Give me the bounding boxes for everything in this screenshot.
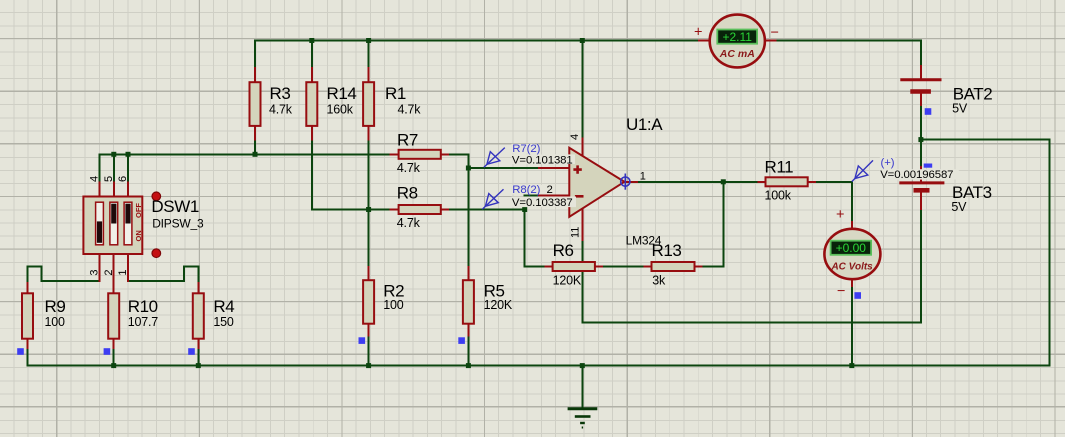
wire DSW row bbox=[100, 153, 391, 155]
pin leads R8 bbox=[390, 209, 448, 211]
probe R7(2) arrow bbox=[484, 148, 505, 168]
pin leads R10 bbox=[113, 254, 115, 348]
op-amp output node symbol bbox=[621, 177, 630, 186]
DSW1 slot 1 bbox=[96, 202, 104, 245]
svg-text:R3: R3 bbox=[270, 84, 291, 103]
pin lead op-amp pin 4 bbox=[581, 138, 583, 157]
pin lead op-amp plus input bbox=[539, 167, 569, 169]
text background R8(2) bbox=[512, 185, 555, 195]
wire R9 bottom bbox=[27, 348, 29, 366]
node rail R2 bbox=[366, 363, 371, 368]
svg-text:5V: 5V bbox=[952, 102, 968, 116]
node DSW row pin6 bbox=[126, 152, 131, 157]
wire R1 top drop bbox=[368, 41, 370, 69]
wire R3 bottom bbox=[254, 140, 256, 155]
svg-text:DSW1: DSW1 bbox=[151, 197, 199, 216]
resistor R4 bbox=[193, 293, 204, 338]
resistor R5 bbox=[463, 280, 474, 324]
probe R8(2) arrow bbox=[482, 189, 503, 209]
svg-text:LM324: LM324 bbox=[626, 234, 662, 248]
svg-text:4.7k: 4.7k bbox=[269, 103, 293, 117]
svg-text:+0.00: +0.00 bbox=[836, 241, 867, 255]
wire DSW pin6 stub bbox=[127, 154, 129, 182]
node output R13 junction bbox=[721, 179, 726, 184]
svg-text:R8(2): R8(2) bbox=[512, 184, 540, 196]
battery BAT3 bbox=[899, 181, 944, 184]
svg-text:R7(2): R7(2) bbox=[512, 143, 540, 155]
svg-text:−: − bbox=[771, 25, 779, 41]
pin leads DSW1 top pins 4 5 6 bbox=[100, 183, 129, 197]
svg-text:V=0.00196587: V=0.00196587 bbox=[880, 169, 953, 181]
node top rail pin4 bbox=[580, 38, 585, 43]
wire R2 bottom bbox=[368, 336, 370, 366]
unconnected marker BAT3 bbox=[924, 164, 933, 168]
resistor R9 bbox=[22, 293, 33, 338]
node R8 row R1 bbox=[366, 207, 371, 212]
text background R7(2) bbox=[512, 144, 536, 154]
op-amp plus mark bbox=[573, 165, 581, 173]
op-amp minus mark bbox=[575, 195, 584, 198]
unconnected marker R2 bbox=[359, 337, 366, 344]
svg-text:V=0.101381: V=0.101381 bbox=[512, 154, 573, 166]
wire BAT2 top drop bbox=[920, 41, 922, 67]
svg-text:107.7: 107.7 bbox=[128, 315, 159, 329]
svg-text:R1: R1 bbox=[385, 84, 406, 103]
svg-text:1: 1 bbox=[117, 269, 129, 275]
wire R5 bottom bbox=[467, 336, 469, 366]
svg-text:R11: R11 bbox=[765, 158, 794, 177]
node rail R10 bbox=[111, 363, 116, 368]
svg-text:4.7k: 4.7k bbox=[397, 216, 421, 230]
svg-text:5: 5 bbox=[103, 176, 115, 182]
svg-text:+: + bbox=[694, 25, 702, 41]
ammeter display bbox=[717, 30, 757, 44]
svg-text:R14: R14 bbox=[327, 84, 357, 103]
resistor R13 bbox=[652, 262, 695, 271]
svg-text:100: 100 bbox=[383, 298, 404, 312]
wire R11 right to volts meter bbox=[815, 182, 852, 222]
pin leads R14 bbox=[311, 68, 313, 140]
DSW1 slot 2 bbox=[110, 202, 118, 245]
svg-text:OFF: OFF bbox=[134, 203, 143, 218]
ground bbox=[568, 407, 598, 410]
pin leads BAT2 bbox=[920, 66, 922, 105]
wire R9 staircase to DSW pin3 bbox=[28, 267, 100, 284]
svg-text:5V: 5V bbox=[951, 200, 967, 214]
node rail R4 bbox=[196, 363, 201, 368]
pin leads R11 bbox=[758, 181, 814, 183]
svg-text:ON: ON bbox=[134, 230, 143, 241]
resistor R2 bbox=[363, 280, 374, 324]
svg-text:R6: R6 bbox=[553, 241, 574, 260]
wire R7 right to node bbox=[448, 154, 468, 168]
svg-text:U1:A: U1:A bbox=[626, 115, 663, 134]
svg-text:R10: R10 bbox=[128, 297, 158, 316]
resistor R6 bbox=[553, 262, 595, 271]
DSW1 slot 3 bbox=[124, 202, 132, 245]
svg-text:R9: R9 bbox=[45, 297, 66, 316]
resistor R3 bbox=[250, 82, 261, 126]
wire top rail right bbox=[776, 40, 921, 42]
probe (+) arrow bbox=[852, 160, 873, 181]
wire BAT junction to right edge bbox=[921, 140, 1050, 366]
node rail volts meter bbox=[849, 363, 854, 368]
wire R4 staircase to DSW pin1 bbox=[128, 267, 198, 284]
unconnected marker voltmeter bbox=[854, 292, 861, 299]
svg-text:R8: R8 bbox=[397, 184, 418, 203]
svg-text:+: + bbox=[836, 207, 844, 223]
wire DSW pin4 stub bbox=[99, 154, 101, 182]
svg-text:2: 2 bbox=[547, 184, 553, 196]
svg-text:3: 3 bbox=[89, 269, 101, 275]
svg-text:100k: 100k bbox=[765, 189, 792, 203]
svg-text:DIPSW_3: DIPSW_3 bbox=[152, 217, 204, 231]
svg-text:2: 2 bbox=[103, 269, 115, 275]
pin leads R3 bbox=[254, 68, 256, 140]
wire R14 top drop bbox=[311, 41, 313, 69]
resistor R7 bbox=[399, 150, 441, 159]
svg-text:4.7k: 4.7k bbox=[398, 103, 422, 117]
resistor R8 bbox=[399, 205, 441, 214]
svg-text:160k: 160k bbox=[327, 103, 354, 117]
unconnected marker R4 bbox=[188, 348, 195, 355]
node minus-input junction bbox=[522, 207, 527, 212]
wire R8 right to node bbox=[448, 209, 525, 211]
unconnected marker R5 bbox=[458, 337, 465, 344]
node rail R5 bbox=[466, 363, 471, 368]
resistor R1 bbox=[363, 82, 374, 126]
node DSW row R3 bbox=[253, 152, 258, 157]
node A plus-input junction bbox=[466, 166, 471, 171]
svg-text:4.7k: 4.7k bbox=[397, 161, 421, 175]
wire R4 bottom bbox=[197, 348, 199, 366]
wire op-amp output to R11 bbox=[637, 181, 758, 183]
node DSW row pin5 bbox=[111, 152, 116, 157]
wire R1 bottom to R2 bbox=[368, 140, 370, 268]
pin leads R6 bbox=[545, 266, 602, 268]
pin leads R13 bbox=[644, 266, 701, 268]
resistor R11 bbox=[766, 177, 808, 186]
svg-text:+2.11: +2.11 bbox=[722, 30, 752, 44]
pin leads R1 bbox=[368, 68, 370, 140]
wire node to op-amp plus input bbox=[468, 167, 539, 169]
pin leads DSW1 bottom pins 3 2 1 bbox=[100, 254, 129, 281]
svg-text:−: − bbox=[837, 284, 845, 300]
wire BAT2 bottom to BAT3 top bbox=[920, 105, 922, 167]
pin leads R9 bbox=[27, 283, 29, 348]
node BAT2 BAT3 junction bbox=[918, 137, 923, 142]
svg-text:AC Volts: AC Volts bbox=[830, 261, 873, 272]
node top rail R1 bbox=[366, 38, 371, 43]
wire ground stem bbox=[581, 366, 583, 408]
pin lead op-amp minus input bbox=[539, 194, 569, 196]
resistor R10 bbox=[108, 293, 119, 338]
unconnected marker R10 bbox=[104, 348, 111, 355]
wire R6 to R13 bbox=[602, 266, 644, 268]
svg-text:R4: R4 bbox=[213, 297, 234, 316]
text background (+) probe bbox=[880, 157, 896, 167]
wire R10 bottom bbox=[113, 348, 115, 366]
wire top rail left bbox=[255, 40, 699, 42]
pin leads R5 bbox=[467, 267, 469, 336]
svg-text:4: 4 bbox=[569, 134, 581, 140]
pin leads AC Volts meter bbox=[851, 222, 853, 286]
pin leads R2 bbox=[368, 267, 370, 336]
pin lead op-amp pin 11 bbox=[581, 209, 583, 241]
wire node up to op-amp minus input bbox=[525, 195, 539, 209]
node top rail R14 bbox=[309, 38, 314, 43]
DSW1 red dot bottom bbox=[152, 249, 161, 258]
svg-text:3k: 3k bbox=[652, 274, 666, 288]
dip switch DSW1 body bbox=[83, 197, 142, 255]
pin leads R4 bbox=[197, 283, 199, 348]
wire volts meter bottom to rail bbox=[851, 286, 853, 366]
pin leads AC mA meter bbox=[699, 40, 776, 42]
wire node down to R5 bbox=[467, 168, 469, 267]
svg-text:100: 100 bbox=[45, 315, 66, 329]
wire R3 top drop bbox=[254, 41, 256, 69]
svg-text:6: 6 bbox=[117, 176, 129, 182]
ammeter AC mA body bbox=[710, 15, 765, 68]
svg-text:11: 11 bbox=[570, 227, 582, 238]
svg-text:(+): (+) bbox=[881, 157, 895, 169]
pin lead op-amp output pin 1 bbox=[624, 181, 637, 183]
wire bottom rail bbox=[28, 365, 1050, 367]
voltmeter display bbox=[831, 241, 872, 255]
svg-text:1: 1 bbox=[640, 171, 646, 183]
op-amp U1:A triangle bbox=[569, 148, 624, 217]
svg-text:120K: 120K bbox=[484, 298, 513, 312]
wire pin11 run to BAT3 bottom bbox=[582, 209, 921, 322]
svg-text:AC mA: AC mA bbox=[719, 48, 755, 60]
unconnected marker R9 bbox=[17, 348, 24, 355]
wire DSW pin5 stub bbox=[113, 154, 115, 182]
wire op-amp pin11 down bbox=[581, 240, 583, 322]
svg-text:120K: 120K bbox=[553, 274, 582, 288]
pin leads BAT3 bbox=[920, 167, 922, 209]
unconnected marker BAT2 bbox=[925, 108, 932, 115]
wire op-amp pin4 drop bbox=[581, 41, 583, 139]
wire R14 bottom to R8 row bbox=[312, 140, 391, 210]
wire node down to R6 bbox=[525, 210, 546, 267]
pin leads R7 bbox=[390, 153, 448, 155]
battery BAT2 bbox=[900, 78, 941, 81]
voltmeter AC Volts body bbox=[824, 229, 880, 279]
svg-text:4: 4 bbox=[89, 176, 101, 182]
svg-text:150: 150 bbox=[213, 315, 234, 329]
node rail ground bbox=[580, 363, 585, 368]
resistor R14 bbox=[306, 82, 317, 126]
wire R13 right up to output net bbox=[702, 182, 724, 267]
svg-text:V=0.103387: V=0.103387 bbox=[512, 197, 573, 209]
svg-text:R7: R7 bbox=[397, 131, 418, 150]
DSW1 red dot top bbox=[152, 192, 161, 201]
